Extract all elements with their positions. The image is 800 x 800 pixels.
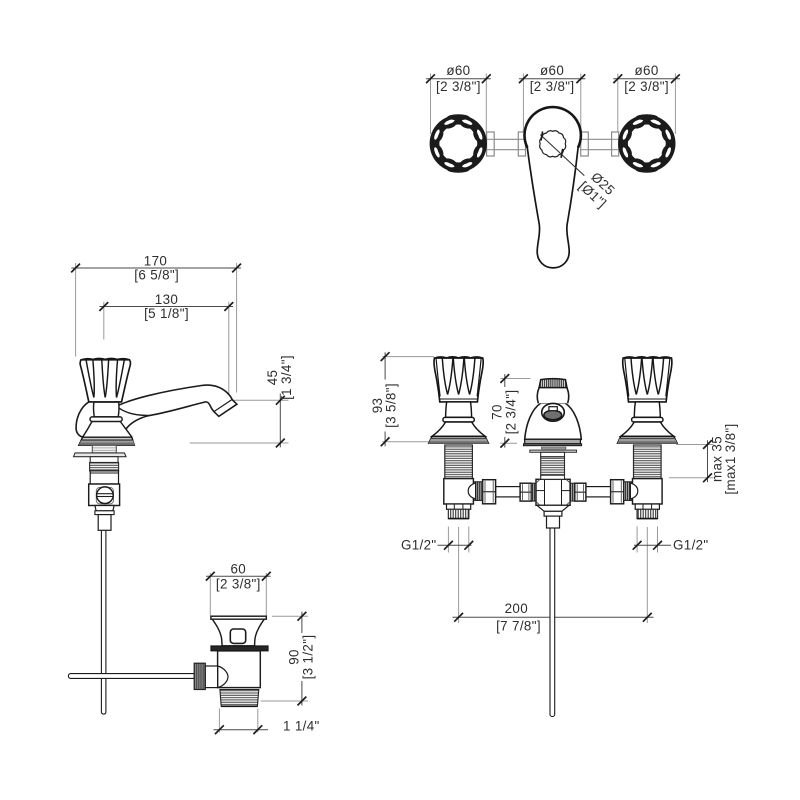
svg-text:[2 3/8"]: [2 3/8"] bbox=[624, 79, 669, 94]
svg-text:G1/2": G1/2" bbox=[673, 537, 709, 552]
svg-text:G1/2": G1/2" bbox=[401, 537, 437, 552]
svg-text:ø60: ø60 bbox=[446, 63, 470, 78]
svg-text:[3 1/2"]: [3 1/2"] bbox=[300, 635, 315, 680]
svg-text:130: 130 bbox=[155, 292, 178, 307]
svg-text:[6 5/8"]: [6 5/8"] bbox=[134, 268, 179, 283]
svg-text:ø60: ø60 bbox=[540, 63, 564, 78]
svg-text:60: 60 bbox=[230, 562, 246, 577]
svg-text:[1 3/4"]: [1 3/4"] bbox=[279, 355, 294, 400]
svg-text:ø60: ø60 bbox=[635, 63, 659, 78]
svg-text:[2 3/8"]: [2 3/8"] bbox=[436, 79, 481, 94]
svg-text:max 35: max 35 bbox=[709, 436, 724, 482]
svg-text:[5 1/8"]: [5 1/8"] bbox=[144, 306, 189, 321]
svg-text:70: 70 bbox=[490, 404, 505, 420]
svg-text:[max1 3/8"]: [max1 3/8"] bbox=[723, 423, 738, 494]
svg-text:170: 170 bbox=[144, 253, 167, 268]
svg-text:1 1/4": 1 1/4" bbox=[283, 719, 320, 734]
svg-text:[2 3/8"]: [2 3/8"] bbox=[216, 576, 261, 591]
svg-text:[2 3/8"]: [2 3/8"] bbox=[530, 79, 575, 94]
svg-text:93: 93 bbox=[370, 398, 385, 414]
svg-text:200: 200 bbox=[505, 601, 528, 616]
svg-text:90: 90 bbox=[287, 649, 302, 665]
svg-text:[2 3/4"]: [2 3/4"] bbox=[503, 390, 518, 435]
svg-text:[3 5/8"]: [3 5/8"] bbox=[384, 383, 399, 428]
svg-text:45: 45 bbox=[265, 370, 280, 386]
svg-text:[7 7/8"]: [7 7/8"] bbox=[496, 618, 541, 633]
